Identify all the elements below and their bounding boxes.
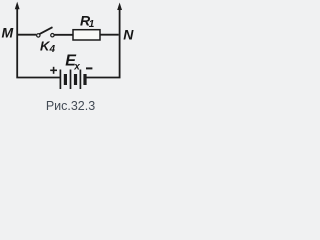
svg-text:M: M	[2, 24, 14, 40]
svg-text:4: 4	[49, 44, 56, 55]
svg-text:Рис.32.3: Рис.32.3	[46, 99, 95, 113]
svg-text:x: x	[73, 61, 80, 72]
svg-text:N: N	[123, 26, 134, 42]
svg-text:1: 1	[89, 19, 95, 30]
